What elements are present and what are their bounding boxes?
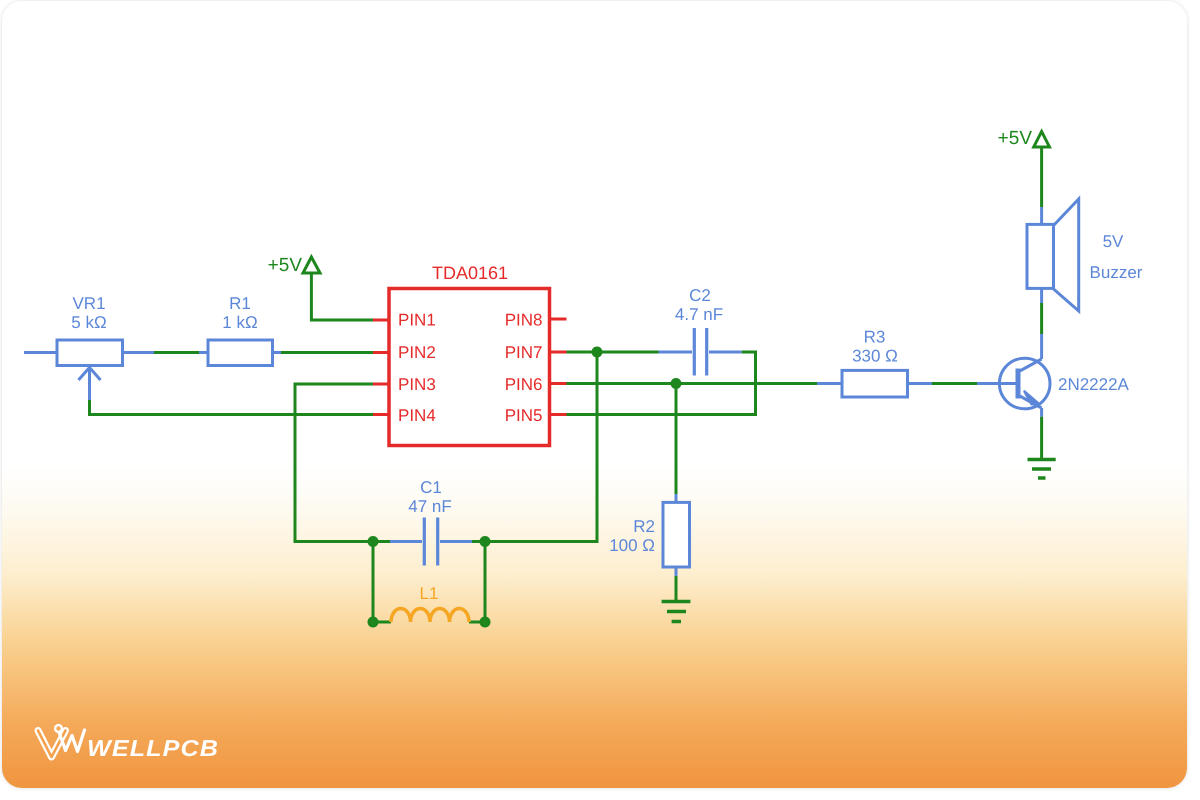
pin stub PIN6 bbox=[549, 382, 567, 385]
power +5V symbol (left, feeding PIN1) bbox=[268, 255, 320, 276]
svg-text:L1: L1 bbox=[420, 584, 439, 603]
ground symbol below Q1 bbox=[1028, 460, 1056, 479]
pin stub PIN8 bbox=[549, 318, 567, 321]
junction L1 left bbox=[368, 617, 379, 628]
svg-text:WELLPCB: WELLPCB bbox=[87, 735, 219, 761]
wire Q1 emitter to ground bbox=[1040, 408, 1043, 460]
logo WELLPCB bbox=[38, 725, 219, 761]
svg-text:PIN6: PIN6 bbox=[505, 375, 543, 394]
svg-text:47 nF: 47 nF bbox=[408, 497, 451, 516]
wire C1 left down to L1 bbox=[372, 542, 375, 623]
svg-text:PIN4: PIN4 bbox=[398, 406, 436, 425]
wire buzzer top to +5V bbox=[1040, 147, 1043, 224]
svg-text:5 kΩ: 5 kΩ bbox=[71, 313, 106, 332]
pin stub PIN3 bbox=[373, 383, 390, 386]
resistor R2 bbox=[609, 494, 689, 576]
svg-text:1 kΩ: 1 kΩ bbox=[222, 313, 257, 332]
svg-text:PIN8: PIN8 bbox=[505, 311, 543, 330]
wire R2 to ground bbox=[675, 576, 678, 602]
pin stub PIN7 bbox=[549, 351, 567, 354]
wire C2 to PIN5 bbox=[567, 352, 756, 415]
svg-text:PIN3: PIN3 bbox=[398, 375, 436, 394]
svg-text:2N2222A: 2N2222A bbox=[1058, 375, 1130, 394]
svg-text:100 Ω: 100 Ω bbox=[609, 536, 655, 555]
buzzer LS1 5V bbox=[1027, 199, 1143, 311]
wire R2 branch from PIN6 junction bbox=[675, 384, 678, 495]
power +5V symbol (right, feeding buzzer) bbox=[998, 128, 1050, 149]
junction L1 right bbox=[480, 617, 491, 628]
svg-text:4.7 nF: 4.7 nF bbox=[675, 305, 723, 324]
junction C1 right bbox=[480, 536, 491, 547]
resistor R3 bbox=[817, 328, 932, 398]
inductor L1 bbox=[373, 584, 485, 622]
svg-text:C2: C2 bbox=[689, 286, 711, 305]
capacitor C2 bbox=[659, 286, 742, 376]
wire R1 to PIN2 bbox=[281, 351, 374, 354]
svg-text:PIN2: PIN2 bbox=[398, 343, 436, 362]
svg-text:PIN7: PIN7 bbox=[505, 343, 543, 362]
svg-text:VR1: VR1 bbox=[72, 294, 105, 313]
pin stub PIN2 bbox=[373, 351, 390, 354]
wire Q1 base lead bbox=[977, 382, 1018, 385]
junction on PIN7 wire bbox=[592, 347, 603, 358]
svg-text:C1: C1 bbox=[420, 478, 442, 497]
transistor Q1 2N2222A bbox=[999, 358, 1129, 409]
wire PIN3 to C1 left bbox=[295, 384, 374, 542]
capacitor C1 bbox=[373, 478, 485, 566]
wire PIN7 junction down to C1 right bbox=[485, 352, 597, 542]
potentiometer VR1 bbox=[24, 294, 154, 400]
wire PIN6 to R3 bbox=[567, 382, 818, 385]
svg-text:PIN1: PIN1 bbox=[398, 311, 436, 330]
resistor R1 bbox=[199, 294, 281, 366]
svg-text:R1: R1 bbox=[229, 294, 251, 313]
junction C1 left bbox=[368, 536, 379, 547]
wire VR1 to R1 bbox=[154, 351, 199, 354]
svg-text:PIN5: PIN5 bbox=[505, 406, 543, 425]
wire +5V to PIN1 bbox=[311, 273, 374, 320]
svg-text:Buzzer: Buzzer bbox=[1090, 263, 1143, 282]
pin stub PIN1 bbox=[373, 319, 390, 322]
ground symbol below R2 bbox=[662, 602, 691, 622]
pin stub PIN5 bbox=[549, 413, 567, 416]
wire R3 to Q1 base bbox=[932, 382, 977, 385]
svg-text:330 Ω: 330 Ω bbox=[852, 347, 898, 366]
wire VR1 wiper to PIN4 bbox=[90, 400, 375, 415]
svg-text:+5V: +5V bbox=[268, 255, 303, 276]
svg-text:+5V: +5V bbox=[998, 128, 1033, 149]
wire C1 right down to L1 bbox=[484, 542, 487, 623]
IC U1 TDA0161 bbox=[389, 263, 550, 446]
svg-text:TDA0161: TDA0161 bbox=[432, 263, 508, 283]
wire Q1 collector to buzzer bbox=[1040, 289, 1043, 360]
svg-text:5V: 5V bbox=[1103, 232, 1124, 251]
svg-text:R2: R2 bbox=[633, 517, 655, 536]
junction on PIN6 wire bbox=[671, 378, 682, 389]
pin stub PIN4 bbox=[373, 413, 390, 416]
wire PIN7 to C2 bbox=[567, 351, 659, 354]
svg-text:R3: R3 bbox=[864, 328, 886, 347]
